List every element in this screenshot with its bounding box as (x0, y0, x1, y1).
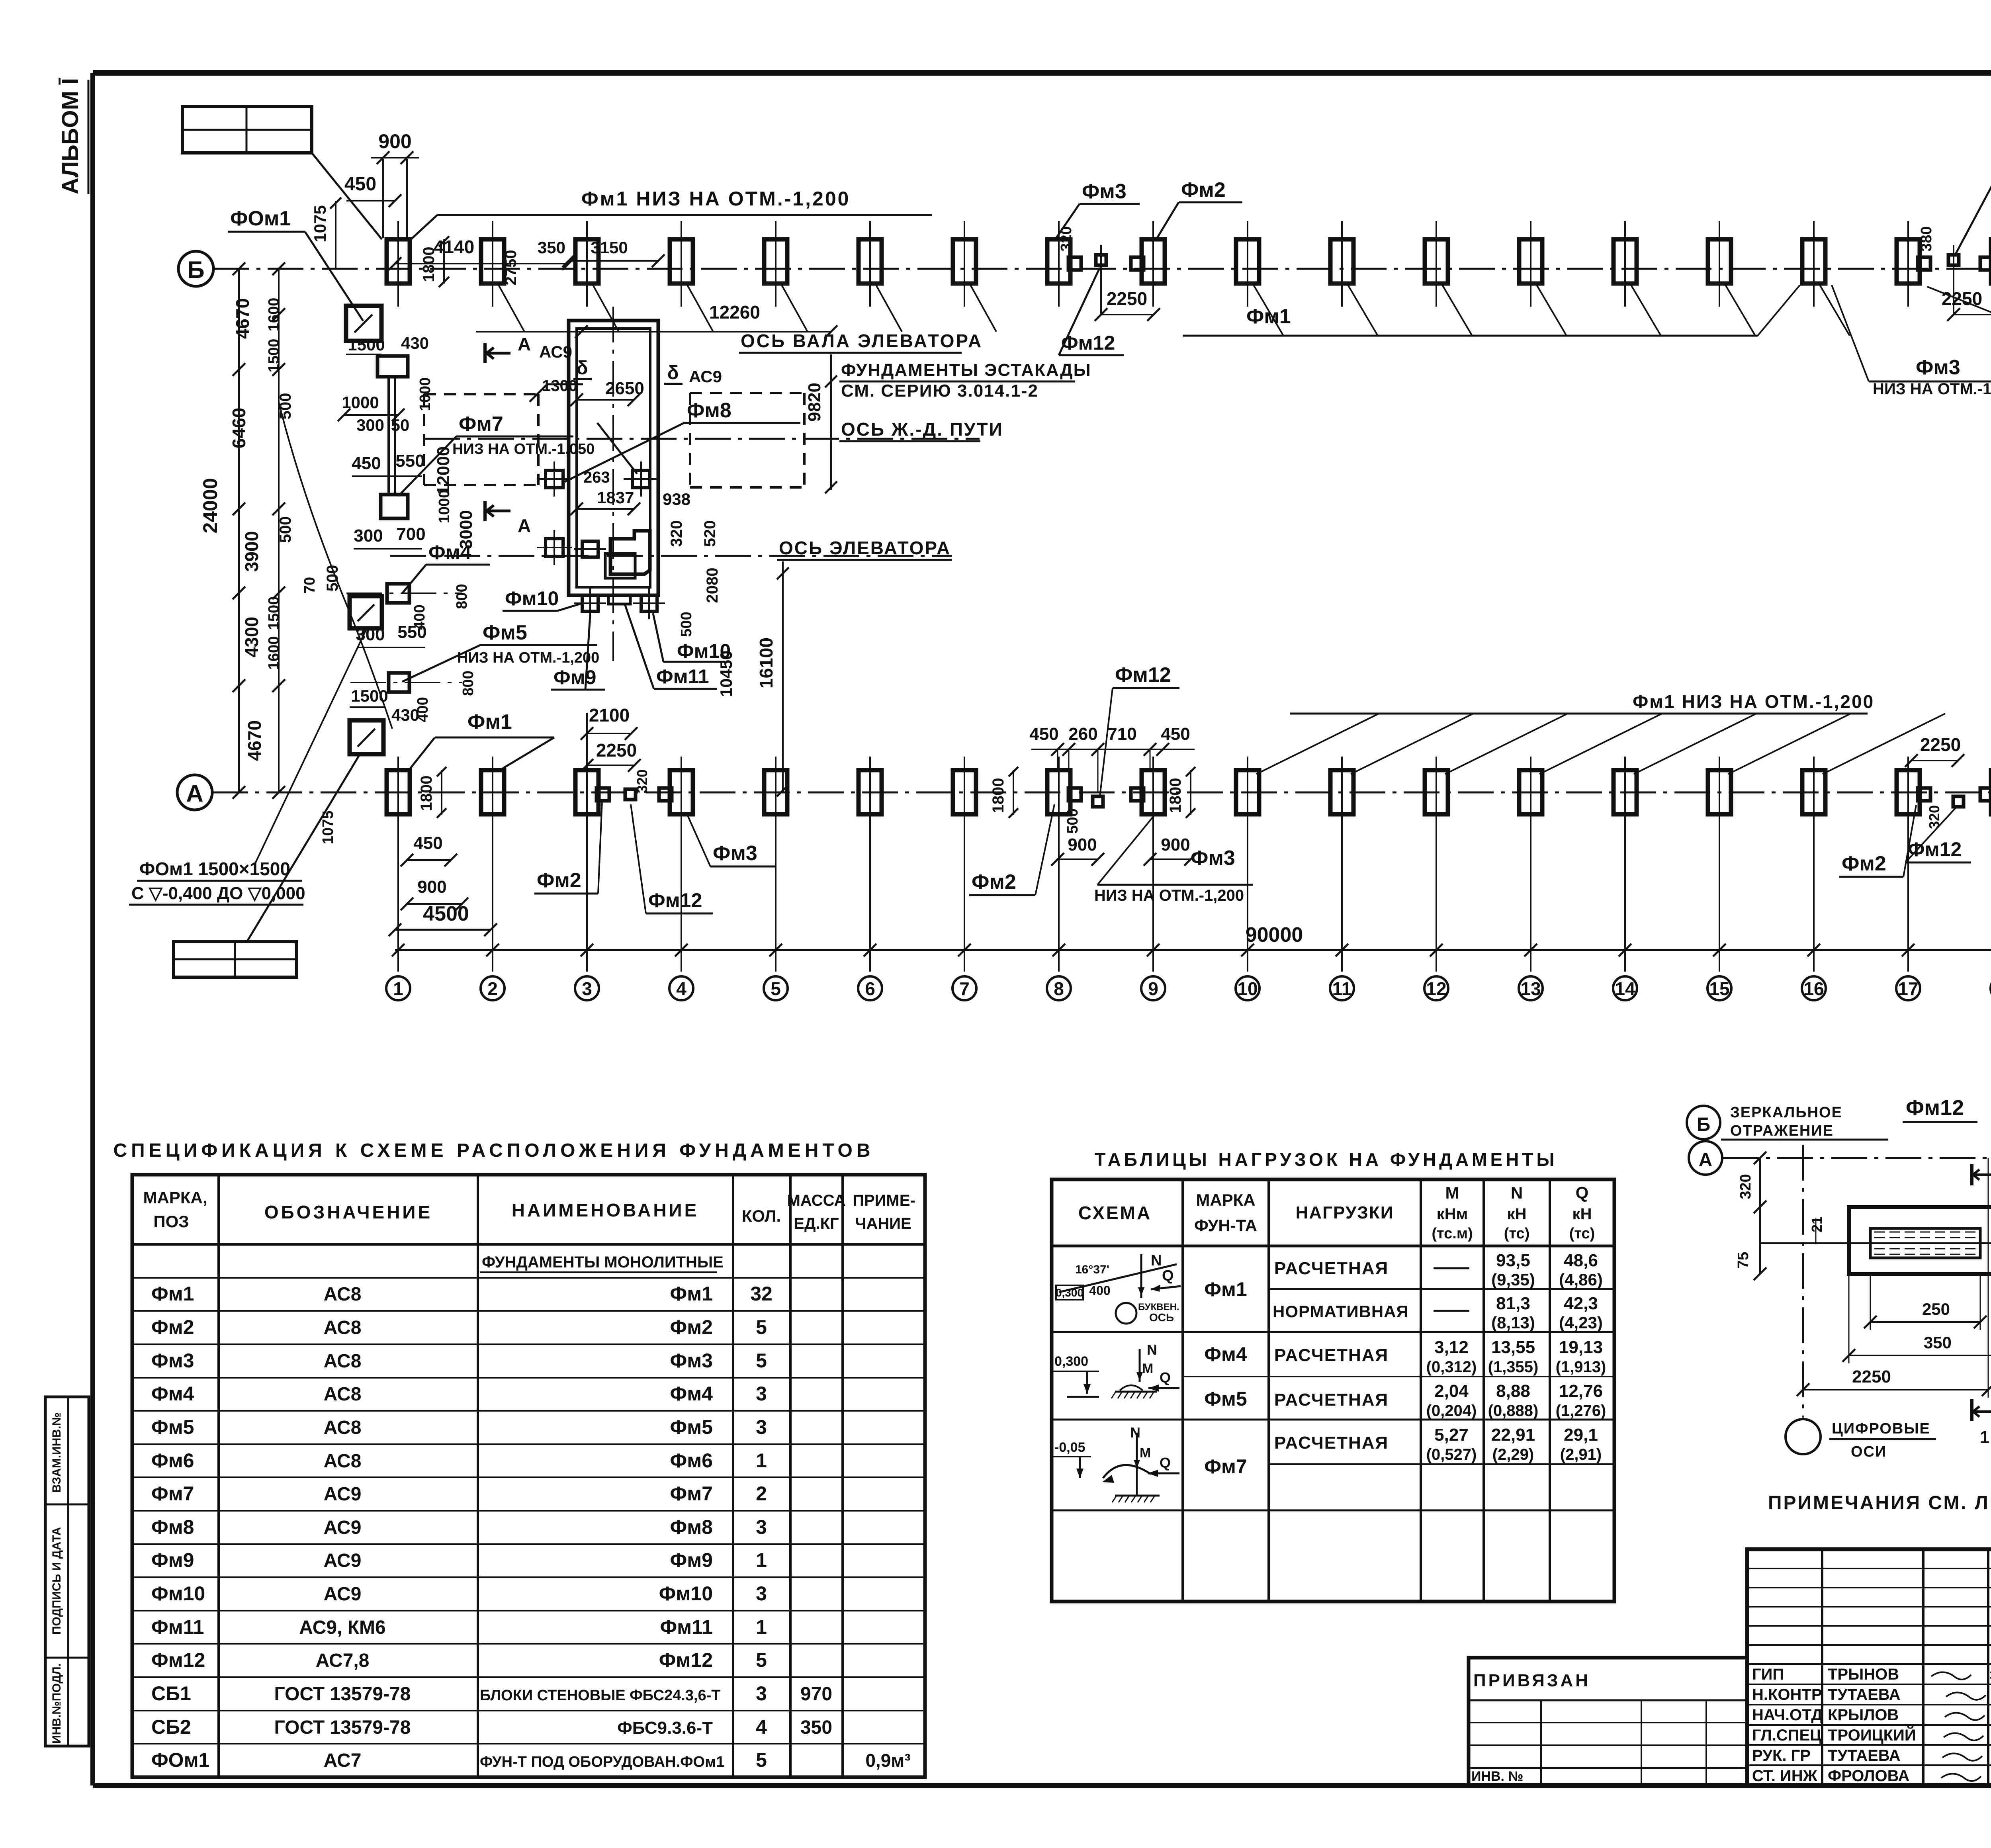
spec row 11 Фм10 (151, 1582, 767, 1605)
foundation Фм1 column 4 axis Б (670, 239, 693, 284)
column line 6 top stub (869, 221, 871, 307)
foundation Фм1 column 6 axis А (859, 770, 882, 814)
dim 450 550 (352, 451, 424, 476)
svg-text:АС7: АС7 (324, 1750, 362, 1771)
svg-text:НАИМЕНОВАНИЕ: НАИМЕНОВАНИЕ (512, 1200, 699, 1220)
svg-text:263: 263 (583, 469, 610, 486)
svg-text:17: 17 (1898, 978, 1918, 999)
dim 16100 (756, 561, 789, 796)
svg-text:НОРМАТИВНАЯ: НОРМАТИВНАЯ (1273, 1302, 1409, 1321)
svg-text:ЗЕРКАЛЬНОЕ: ЗЕРКАЛЬНОЕ (1730, 1104, 1842, 1121)
foundation Фм11 machine block in pit (610, 531, 650, 574)
foundation Фм1 column 11 axis Б (1330, 239, 1353, 284)
svg-text:(0,312): (0,312) (1426, 1358, 1477, 1376)
column line 14 top stub (1624, 221, 1626, 307)
label Ось вала элеватора (739, 330, 983, 353)
foundation Фм1 column 15 axis Б (1708, 239, 1731, 284)
svg-text:2250: 2250 (596, 740, 637, 761)
svg-text:Фм7: Фм7 (670, 1482, 713, 1505)
svg-text:13,55: 13,55 (1491, 1338, 1535, 1357)
foundation Фм1 column 7 axis Б (953, 239, 976, 284)
spec row 4 Фм3 (151, 1349, 767, 1372)
svg-text:АС7,8: АС7,8 (316, 1650, 370, 1671)
title block outer (1747, 1549, 1991, 1785)
svg-text:δ: δ (667, 362, 679, 383)
svg-text:(тс.м): (тс.м) (1432, 1225, 1473, 1242)
svg-text:2: 2 (487, 978, 498, 999)
svg-text:Фм3: Фм3 (1916, 356, 1960, 379)
leader corner 1300 (530, 384, 583, 402)
svg-text:НАЧ.ОТД: НАЧ.ОТД (1752, 1706, 1823, 1724)
svg-text:ОСЬ Ж.-Д. ПУТИ: ОСЬ Ж.-Д. ПУТИ (841, 419, 1003, 440)
svg-text:БЛОКИ СТЕНОВЫЕ ФБС24.3,6-Т: БЛОКИ СТЕНОВЫЕ ФБС24.3,6-Т (480, 1687, 720, 1704)
svg-text:1: 1 (756, 1616, 767, 1638)
column line 11 lower axis line to circle (1341, 757, 1343, 972)
svg-text:3: 3 (756, 1416, 767, 1438)
dim 300 550 near Фм5 (356, 622, 426, 647)
svg-text:Фм10: Фм10 (659, 1582, 713, 1605)
svg-text:А: А (518, 334, 531, 354)
pit bottom stub (608, 595, 630, 604)
svg-text:ТРОИЦКИЙ: ТРОИЦКИЙ (1828, 1726, 1916, 1744)
dimension line 90000 (392, 923, 1991, 956)
label Фм3 низ на отм.-1,200 mid bottom (1094, 815, 1253, 904)
column circle 17 (1896, 976, 1920, 1000)
svg-text:ПРИМЕ-: ПРИМЕ- (853, 1192, 915, 1209)
svg-text:Фм11: Фм11 (656, 665, 709, 688)
svg-text:3,12: 3,12 (1434, 1338, 1469, 1357)
svg-text:16°37': 16°37' (1075, 1263, 1109, 1276)
svg-text:(4,86): (4,86) (1559, 1270, 1603, 1289)
label Фм12 bottom right (1905, 808, 1971, 862)
dims 450 260 710 450 row (1029, 724, 1195, 792)
svg-text:М: М (1445, 1183, 1459, 1202)
svg-text:1: 1 (756, 1449, 767, 1472)
svg-text:350: 350 (1924, 1333, 1952, 1352)
svg-text:Фм2: Фм2 (1842, 852, 1886, 875)
dim 1837 (570, 488, 640, 515)
column circle 5 (764, 976, 788, 1000)
svg-text:ГЛ.СПЕЦ: ГЛ.СПЕЦ (1752, 1727, 1821, 1744)
svg-text:(0,204): (0,204) (1426, 1402, 1477, 1420)
svg-text:ФУНДАМЕНТЫ ЭСТАКАДЫ: ФУНДАМЕНТЫ ЭСТАКАДЫ (841, 360, 1091, 380)
svg-text:12,76: 12,76 (1559, 1381, 1603, 1401)
svg-text:6: 6 (865, 978, 875, 999)
svg-text:ОСЬ: ОСЬ (1149, 1311, 1174, 1324)
svg-text:Фм12: Фм12 (1908, 838, 1962, 860)
svg-text:800: 800 (454, 584, 470, 609)
load table header (1078, 1183, 1595, 1242)
svg-text:ПОЗ: ПОЗ (153, 1212, 189, 1231)
staff grid (1747, 1549, 1991, 1785)
column circle 13 (1519, 976, 1543, 1000)
dim 4140 (389, 237, 575, 270)
svg-text:НАГРУЗКИ: НАГРУЗКИ (1296, 1203, 1394, 1222)
svg-text:ЦИФРОВЫЕ: ЦИФРОВЫЕ (1832, 1420, 1930, 1437)
column line 1 lower axis line to circle (397, 757, 399, 972)
foundation Фм12 bottom row near column 3 (625, 789, 636, 800)
spec row 6 Фм5 (151, 1416, 767, 1438)
column line 5 lower axis line to circle (775, 757, 776, 972)
svg-text:1600: 1600 (266, 636, 282, 670)
column circle 4 (669, 976, 693, 1000)
foundation Фм1 column 11 axis А (1330, 770, 1353, 814)
svg-text:кНм: кНм (1437, 1205, 1468, 1223)
svg-text:РУК. ГР: РУК. ГР (1752, 1747, 1811, 1764)
svg-text:13: 13 (1520, 978, 1541, 999)
svg-text:Q: Q (1162, 1267, 1174, 1284)
svg-text:НИЗ НА ОТМ.-1,050: НИЗ НА ОТМ.-1,050 (452, 441, 595, 458)
column circle 7 (952, 976, 976, 1000)
svg-text:M: M (1140, 1445, 1151, 1461)
svg-text:800: 800 (460, 671, 477, 696)
svg-text:1500: 1500 (348, 335, 385, 354)
svg-text:12260: 12260 (709, 302, 760, 323)
svg-text:(2,29): (2,29) (1492, 1446, 1534, 1463)
svg-text:ТАБЛИЦЫ НАГРУЗОК НА ФУНДАМЕ: ТАБЛИЦЫ НАГРУЗОК НА ФУНДАМЕНТЫ (1094, 1149, 1557, 1170)
svg-text:5: 5 (756, 1349, 767, 1372)
svg-text:Фм3: Фм3 (1082, 180, 1127, 203)
spec row 16 ФОм1 (151, 1749, 911, 1771)
column line 8 lower axis line to circle (1058, 757, 1060, 972)
svg-text:500: 500 (277, 393, 294, 420)
svg-text:Фм10: Фм10 (151, 1582, 205, 1605)
svg-text:МАРКА,: МАРКА, (143, 1188, 207, 1207)
svg-text:Фм2: Фм2 (537, 869, 581, 892)
dim 1800 top (420, 236, 449, 287)
foundation Фм1 column 4 axis А (659, 770, 693, 814)
svg-text:Фм9: Фм9 (670, 1549, 713, 1571)
foundation Фм1 column 5 axis Б (764, 239, 787, 284)
svg-text:ОБОЗНАЧЕНИЕ: ОБОЗНАЧЕНИЕ (264, 1202, 432, 1222)
svg-text:450: 450 (1161, 724, 1190, 744)
dashed equipment outline left of pit (424, 394, 538, 485)
svg-text:А: А (186, 780, 203, 807)
label Фм5 низ на отм.-1,200 left (402, 621, 599, 682)
svg-text:2750: 2750 (502, 250, 520, 286)
foundation Фм1 column 17 axis А (1897, 770, 1930, 814)
svg-text:1: 1 (756, 1549, 767, 1571)
svg-text:10450: 10450 (717, 651, 735, 697)
axis А circle (177, 775, 212, 810)
svg-text:1: 1 (1980, 1428, 1989, 1447)
svg-text:ПОДПИСЬ И ДАТА: ПОДПИСЬ И ДАТА (50, 1527, 63, 1635)
anchor Фм8 left upper (537, 462, 572, 497)
svg-text:АС8: АС8 (324, 1417, 362, 1438)
svg-text:(1,355): (1,355) (1488, 1358, 1539, 1376)
column circle 15 (1707, 976, 1731, 1000)
column circle 10 (1236, 976, 1260, 1000)
svg-text:δ: δ (576, 358, 588, 379)
dashed equipment outline right of pit (690, 393, 804, 487)
svg-text:АС8: АС8 (324, 1384, 362, 1405)
label Фундаменты эстакады см. серию 3.014.1-2 (839, 360, 1091, 401)
svg-text:СТ. ИНЖ: СТ. ИНЖ (1752, 1767, 1818, 1785)
dim 1800 right rot col9 (1167, 767, 1195, 818)
svg-text:260: 260 (1068, 724, 1097, 744)
collective leader Фм1 низ на отм.-1,200 bottom row (1256, 691, 1945, 774)
foundation Фм4 square column1 (387, 584, 409, 603)
svg-text:4: 4 (676, 978, 686, 999)
column line 12 top stub (1436, 221, 1437, 307)
svg-text:2250: 2250 (1920, 734, 1961, 755)
svg-text:450: 450 (413, 833, 442, 853)
svg-text:48,6: 48,6 (1564, 1251, 1598, 1270)
dim 12260 (476, 302, 837, 338)
svg-text:6460: 6460 (229, 408, 249, 448)
svg-text:НИЗ НА ОТМ.-1,200: НИЗ НА ОТМ.-1,200 (1873, 380, 1991, 398)
spec row 13 Фм12 (151, 1649, 767, 1671)
svg-text:МАССА: МАССА (787, 1192, 846, 1209)
svg-text:N: N (1151, 1252, 1162, 1269)
label Фм10 left (503, 587, 582, 611)
svg-text:А: А (1699, 1150, 1713, 1171)
svg-text:70: 70 (301, 577, 318, 594)
svg-text:(тс): (тс) (1569, 1225, 1595, 1242)
svg-text:16100: 16100 (756, 638, 776, 688)
svg-text:1800: 1800 (420, 247, 438, 282)
svg-text:N: N (1130, 1424, 1140, 1441)
label Фм12 top right (1955, 157, 1991, 255)
column line 9 top stub (1152, 221, 1154, 307)
label Ось ж.-д. пути (839, 419, 1003, 441)
column line 9 lower axis line to circle (1152, 757, 1154, 972)
column circle 9 (1141, 976, 1165, 1000)
svg-text:Фм12: Фм12 (1115, 663, 1171, 686)
foundation Фм1 column 2 axis Б (481, 239, 504, 284)
svg-text:АС9: АС9 (324, 1484, 362, 1505)
svg-text:430: 430 (401, 334, 429, 352)
dim 900 top (371, 130, 419, 238)
foundation Фм1 column 7 axis А (953, 770, 976, 814)
svg-text:Фм5: Фм5 (151, 1416, 194, 1438)
svg-text:8,88: 8,88 (1496, 1381, 1530, 1401)
svg-text:РАСЧЕТНАЯ: РАСЧЕТНАЯ (1274, 1345, 1389, 1365)
svg-text:5: 5 (771, 978, 781, 999)
svg-text:ТРЫНОВ: ТРЫНОВ (1828, 1666, 1899, 1683)
dim 300 700 (354, 524, 426, 549)
collective leader Фм1 top row (1183, 284, 1850, 336)
column circle 8 (1047, 976, 1071, 1000)
column line 14 lower axis line to circle (1624, 757, 1626, 972)
pit vertical axis (612, 307, 614, 661)
railway axis dash-dot (424, 438, 980, 440)
svg-text:Фм5: Фм5 (1204, 1388, 1247, 1410)
svg-text:Фм1: Фм1 (1204, 1278, 1247, 1300)
svg-text:Фм4: Фм4 (151, 1383, 194, 1405)
svg-text:ОСЬ ЭЛЕВАТОРА: ОСЬ ЭЛЕВАТОРА (779, 538, 951, 558)
svg-text:СПЕЦИФИКАЦИЯ К СХЕМЕ РАСПОЛО: СПЕЦИФИКАЦИЯ К СХЕМЕ РАСПОЛОЖЕНИЯ ФУНДАМ… (113, 1140, 874, 1161)
svg-text:ОСИ: ОСИ (1851, 1443, 1887, 1460)
spec row 14 СБ1 (151, 1682, 832, 1705)
svg-text:2250: 2250 (1852, 1367, 1891, 1386)
svg-text:500: 500 (1064, 808, 1081, 833)
svg-text:Б: Б (187, 256, 204, 283)
svg-text:5,27: 5,27 (1434, 1425, 1469, 1445)
svg-text:(8,13): (8,13) (1491, 1313, 1535, 1332)
foundation Фм1 column 16 axis Б (1802, 239, 1825, 284)
anchor Фм8 right upper (624, 462, 659, 497)
svg-text:Фм2: Фм2 (972, 870, 1016, 894)
svg-text:938: 938 (663, 490, 690, 508)
svg-text:Фм1 НИЗ НА ОТМ.-1,200: Фм1 НИЗ НА ОТМ.-1,200 (581, 188, 850, 210)
dim 900 right (1144, 835, 1197, 866)
column line 6 lower axis line to circle (869, 757, 871, 972)
spec row 12 Фм11 (151, 1616, 767, 1638)
svg-text:1000: 1000 (342, 393, 379, 412)
column line 17 top stub (1907, 221, 1909, 307)
svg-text:НИЗ НА ОТМ.-1,200: НИЗ НА ОТМ.-1,200 (457, 649, 599, 666)
label Фм12 top mid (1059, 268, 1124, 355)
foundation Фм1 column 1 axis Б (387, 239, 410, 284)
svg-text:450: 450 (344, 174, 376, 195)
column line 11 top stub (1341, 221, 1343, 307)
svg-text:0,300: 0,300 (1056, 1287, 1084, 1299)
load schema sketch Фм1 (1056, 1252, 1181, 1324)
foundation Фм1 column 18 axis Б (1980, 239, 1991, 284)
foundation Фм12 top row near column 17 (1948, 255, 1959, 265)
svg-text:РАСЧЕТНАЯ: РАСЧЕТНАЯ (1274, 1390, 1389, 1410)
svg-text:Q: Q (1160, 1455, 1171, 1471)
svg-text:Фм2: Фм2 (1181, 178, 1226, 201)
svg-text:Фм9: Фм9 (553, 666, 596, 688)
svg-text:Фм3: Фм3 (713, 842, 757, 865)
svg-text:БУКВЕН.: БУКВЕН. (1138, 1302, 1179, 1312)
svg-text:Фм4: Фм4 (428, 541, 471, 563)
svg-text:3: 3 (756, 1516, 767, 1538)
svg-text:3150: 3150 (591, 238, 628, 257)
album label (57, 78, 88, 194)
svg-text:Фм12: Фм12 (151, 1649, 205, 1671)
column line 15 top stub (1719, 221, 1720, 307)
svg-text:50: 50 (391, 416, 410, 434)
svg-text:(1,913): (1,913) (1556, 1358, 1606, 1376)
section mark A top (485, 334, 572, 363)
load rows (1204, 1251, 1606, 1478)
anchor Фм9 small square inside pit (574, 541, 606, 557)
elevator pit inner wall (577, 329, 650, 587)
svg-text:900: 900 (417, 877, 446, 897)
svg-text:5: 5 (756, 1649, 767, 1671)
foundation Фм5 square column1 (389, 673, 409, 692)
section cut mark 1 top (1972, 1164, 1991, 1185)
leader from legend box to ФОм1 squares (247, 753, 360, 942)
mirror note axis circles (1687, 1104, 1888, 1175)
svg-text:ПРИМЕЧАНИЯ СМ. ЛИСТ АС-2.: ПРИМЕЧАНИЯ СМ. ЛИСТ АС-2. (1768, 1492, 1991, 1514)
foundation Фм12 bottom row near column 8 (1093, 796, 1103, 807)
svg-text:3: 3 (756, 1682, 767, 1705)
svg-text:Q: Q (1576, 1183, 1589, 1202)
dim 450 col1 bottom (401, 833, 457, 866)
svg-text:АС9: АС9 (324, 1517, 362, 1538)
foundation Фм1 column 13 axis Б (1519, 239, 1542, 284)
svg-text:Фм2: Фм2 (670, 1316, 713, 1338)
svg-text:АС9: АС9 (689, 367, 722, 386)
svg-text:2: 2 (756, 1482, 767, 1505)
svg-text:АС9: АС9 (539, 342, 572, 361)
svg-text:Фм8: Фм8 (670, 1516, 713, 1538)
svg-text:450: 450 (352, 454, 381, 473)
svg-text:АЛЬБОМ Ī: АЛЬБОМ Ī (57, 78, 83, 194)
svg-text:550: 550 (397, 622, 426, 642)
svg-text:4300: 4300 (241, 617, 262, 657)
foundation Фм1 column 1 axis А (387, 770, 410, 814)
svg-text:(2,91): (2,91) (1560, 1446, 1602, 1463)
svg-text:Фм6: Фм6 (151, 1449, 194, 1472)
svg-text:Фм9: Фм9 (151, 1549, 194, 1571)
dim 1500 430 near lower ФОм1 (350, 686, 419, 724)
svg-text:2100: 2100 (589, 705, 630, 726)
svg-text:1000: 1000 (436, 490, 453, 524)
svg-text:СХЕМА: СХЕМА (1078, 1203, 1152, 1223)
svg-text:15: 15 (1709, 978, 1729, 999)
svg-text:8: 8 (1054, 978, 1064, 999)
dim 9820 (805, 354, 837, 493)
label Фм1 bottom left (410, 710, 554, 769)
foundation Фм1 column 2 axis А (481, 770, 504, 814)
svg-text:АС8: АС8 (324, 1317, 362, 1338)
svg-text:Фм1: Фм1 (467, 710, 512, 733)
svg-text:Фм8: Фм8 (151, 1516, 194, 1538)
fan leaders top row cols 2-7 (498, 284, 996, 332)
spec row 10 Фм9 (151, 1549, 767, 1571)
specification header (143, 1188, 915, 1232)
dim 1000 / 300 50 (338, 393, 405, 421)
elevator pit outer wall (569, 321, 658, 595)
svg-text:МАРКА: МАРКА (1196, 1191, 1255, 1209)
detail Фм12 slot (1870, 1228, 1980, 1258)
svg-text:21: 21 (1809, 1216, 1825, 1232)
foundation Фм1 column 13 axis А (1519, 770, 1542, 814)
svg-text:1075: 1075 (320, 811, 336, 845)
svg-text:ФРОЛОВА: ФРОЛОВА (1828, 1767, 1909, 1785)
svg-text:(0,527): (0,527) (1426, 1446, 1477, 1463)
svg-text:4670: 4670 (232, 298, 253, 339)
legend box bottom-left (174, 942, 297, 977)
label Фм12 bottom left (631, 804, 713, 913)
svg-text:Фм1: Фм1 (1246, 305, 1291, 328)
column line 4 top stub (681, 221, 682, 307)
svg-text:Фм3: Фм3 (670, 1349, 713, 1372)
column line 5 top stub (775, 221, 776, 307)
svg-text:ОТРАЖЕНИЕ: ОТРАЖЕНИЕ (1730, 1122, 1834, 1139)
svg-text:Фм1 НИЗ НА ОТМ.-1,200: Фм1 НИЗ НА ОТМ.-1,200 (1633, 691, 1874, 712)
svg-text:32: 32 (750, 1283, 773, 1305)
svg-text:3: 3 (756, 1582, 767, 1605)
dimension 4500 left (389, 902, 497, 936)
svg-text:550: 550 (395, 451, 424, 471)
column line 12 lower axis line to circle (1436, 757, 1437, 972)
svg-text:24000: 24000 (199, 478, 221, 533)
foundation Фм1 column 14 axis Б (1614, 239, 1637, 284)
svg-text:93,5: 93,5 (1496, 1251, 1530, 1270)
label Фм2 низ на отм.-1,200 right top (1927, 287, 1991, 354)
left sub chain (266, 262, 285, 799)
elevator axis dash-dot (390, 555, 952, 557)
local axis through Фм5 (350, 682, 462, 683)
label Фм1 низ на отм.-1,200 top (411, 188, 932, 239)
label ФОм1 top left (228, 207, 363, 321)
curved leader to ФОм1 squares (279, 402, 392, 729)
svg-text:N: N (1147, 1342, 1157, 1358)
svg-text:АС9: АС9 (324, 1584, 362, 1605)
spec row 9 Фм8 (151, 1516, 767, 1538)
label Фм3 bottom left (687, 815, 776, 866)
section mark A bottom (485, 501, 531, 536)
svg-text:380: 380 (1918, 226, 1935, 251)
label Фм10 right (653, 613, 731, 662)
svg-text:29,1: 29,1 (1564, 1425, 1598, 1445)
